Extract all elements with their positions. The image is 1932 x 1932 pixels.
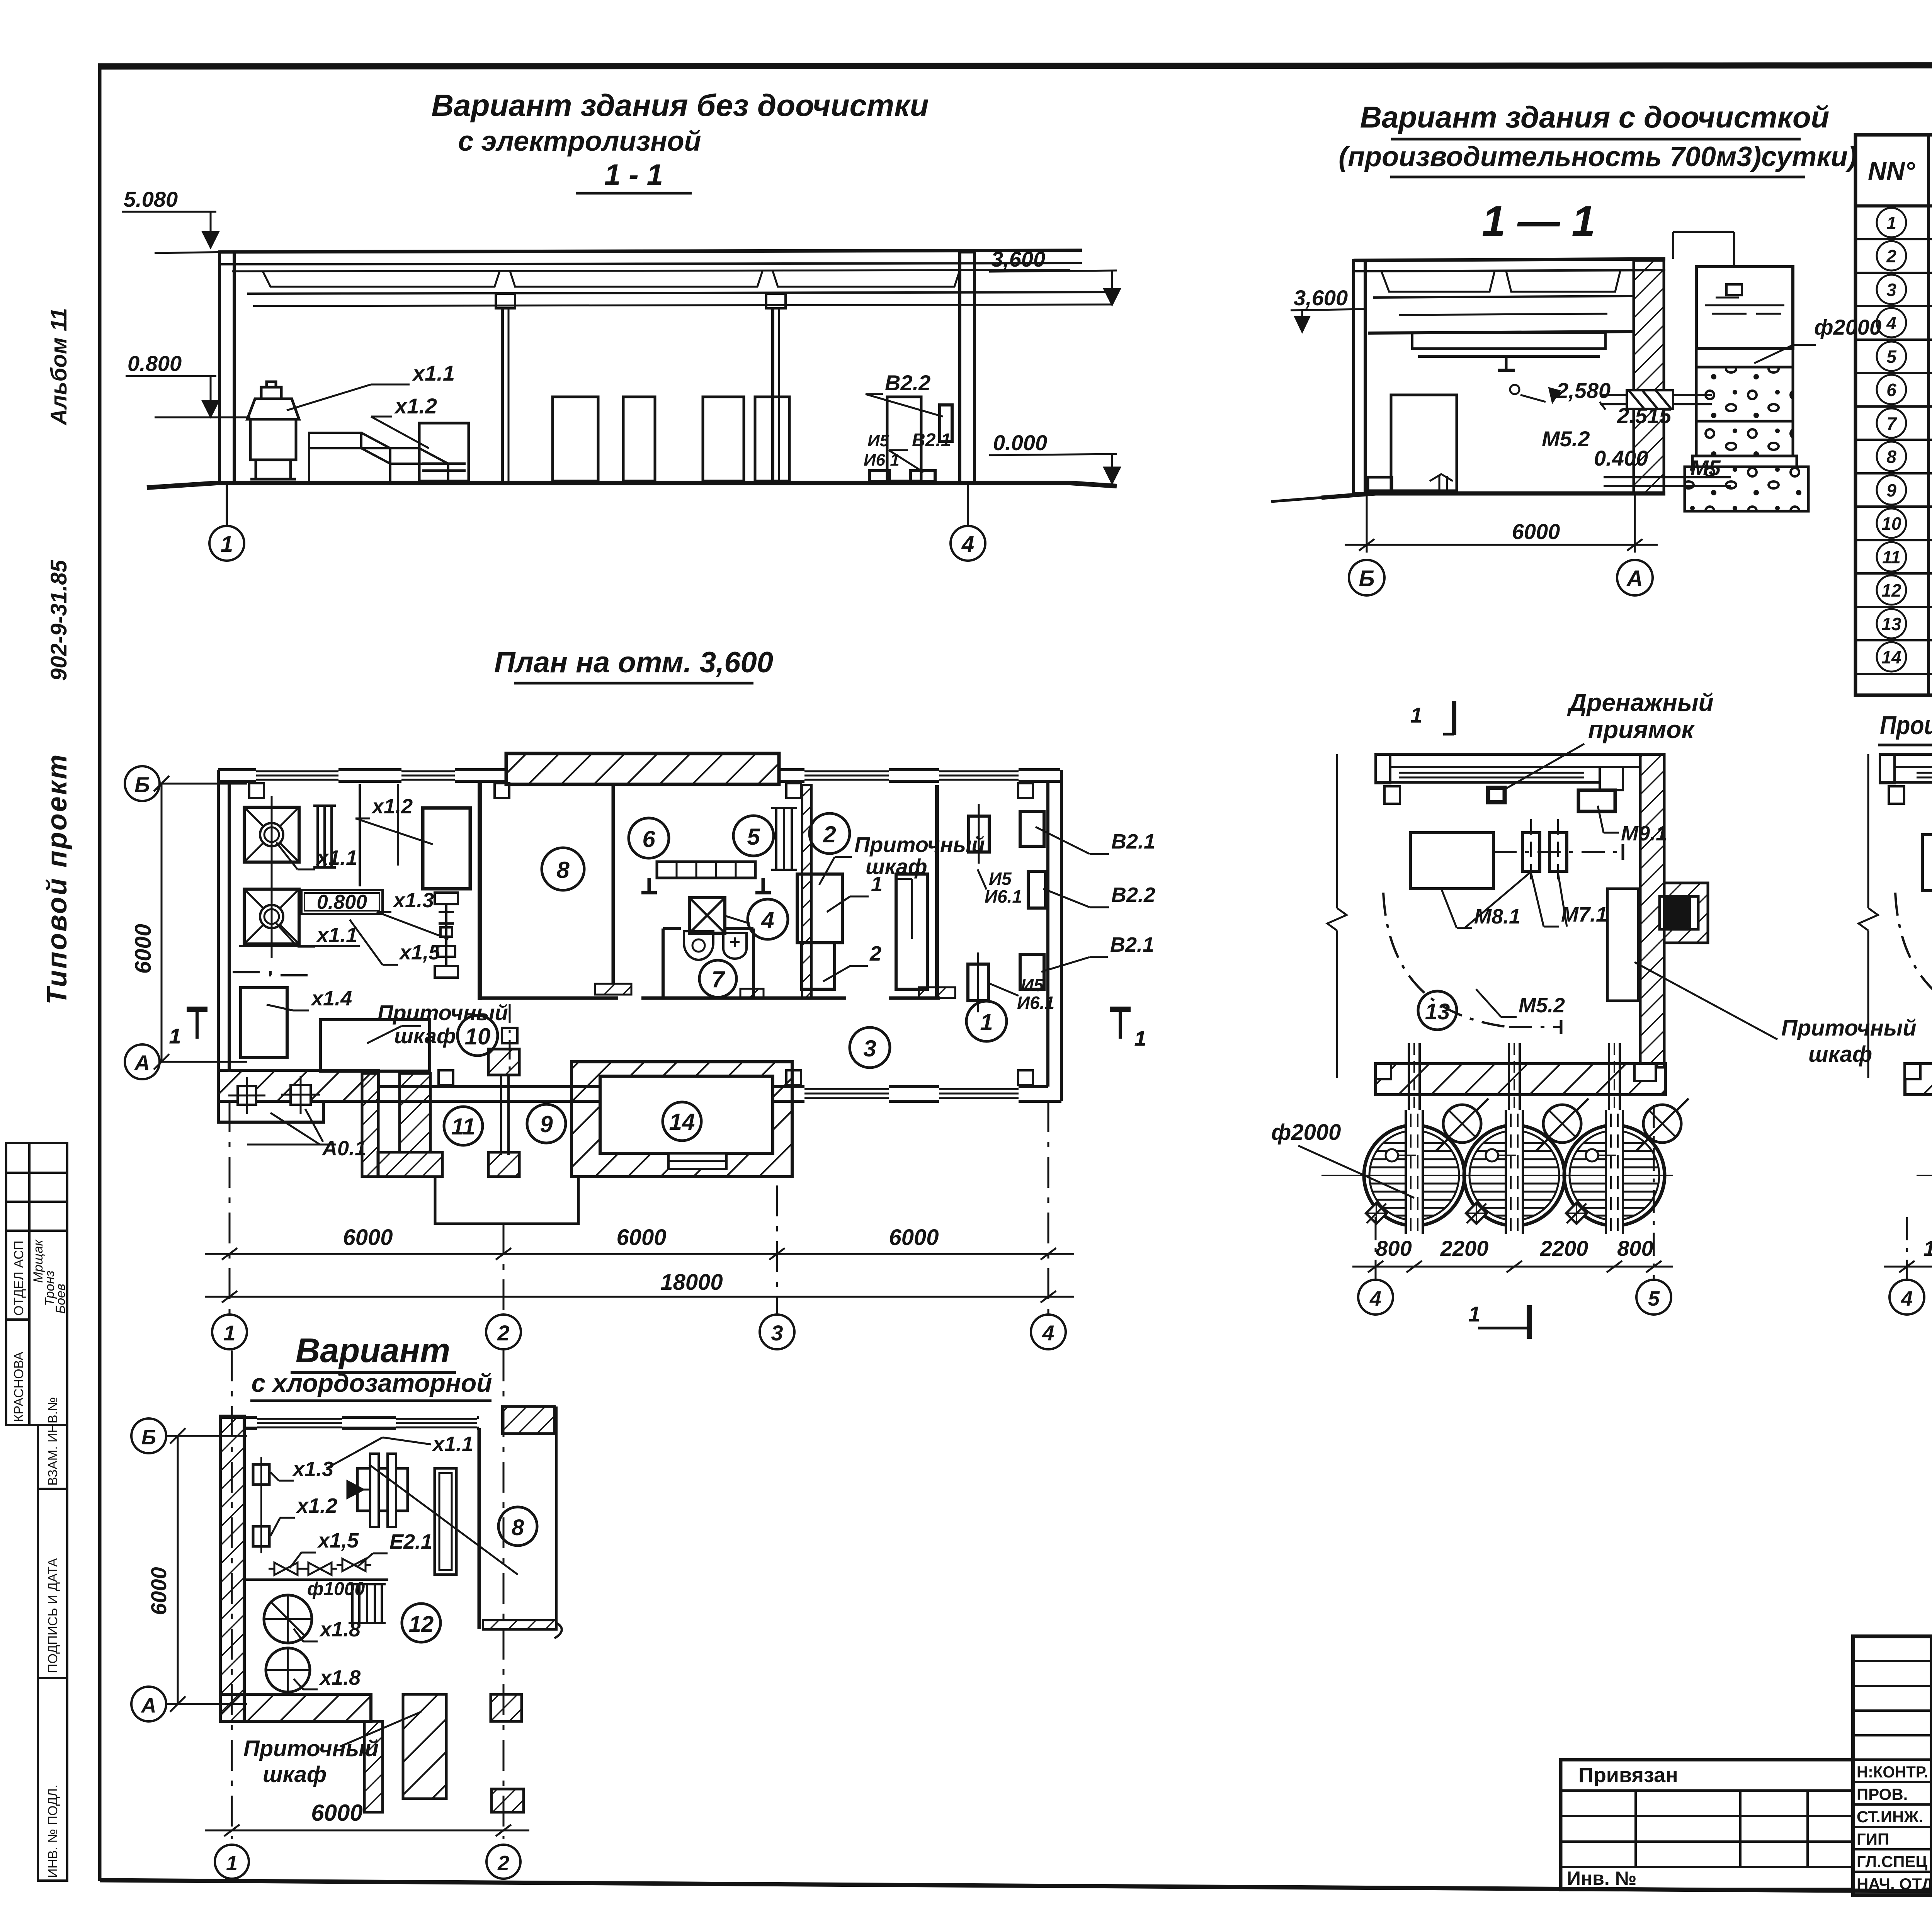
svg-text:0.400: 0.400 — [1594, 446, 1648, 470]
plan400 bottom hatched band — [1905, 1064, 1932, 1095]
room 1 devices — [968, 804, 1046, 1012]
svg-text:2200: 2200 — [1440, 1236, 1489, 1260]
svg-text:M5.2: M5.2 — [1542, 427, 1590, 451]
plan400 aerotanks center line — [1917, 1175, 1932, 1176]
svg-text:3,600: 3,600 — [1294, 286, 1348, 310]
plan700 labels M — [1474, 822, 1667, 1017]
svg-text:x1.4: x1.4 — [310, 987, 352, 1010]
plan700 13 circle — [1418, 991, 1457, 1030]
svg-text:Приточный: Приточный — [243, 1736, 379, 1761]
axis lines and dimensions — [205, 1101, 1074, 1314]
signature rows — [1853, 1781, 1932, 1783]
svg-text:6: 6 — [1886, 380, 1896, 400]
svg-text:А: А — [141, 1694, 156, 1717]
variant axes verticals — [232, 1350, 503, 1839]
section 2 equipment — [1368, 395, 1457, 493]
svg-text:x1.8: x1.8 — [319, 1618, 361, 1641]
plan700 bottom hatched band — [1376, 1064, 1665, 1095]
svg-text:ПРОВ.: ПРОВ. — [1857, 1785, 1908, 1803]
svg-text:x1.1: x1.1 — [316, 846, 357, 869]
svg-text:1: 1 — [223, 1321, 235, 1345]
svg-text:x1,5: x1,5 — [317, 1529, 359, 1552]
hatched top wall band — [506, 753, 779, 784]
variant labels — [292, 1432, 473, 1689]
svg-text:И6.1: И6.1 — [1017, 993, 1054, 1013]
plan700 dims — [1352, 1105, 1673, 1280]
svg-text:6000: 6000 — [616, 1225, 666, 1250]
svg-text:с хлордозаторной: с хлордозаторной — [251, 1369, 492, 1397]
svg-text:2.515: 2.515 — [1617, 403, 1672, 428]
svg-text:12: 12 — [1881, 580, 1901, 600]
vertical axis dim — [154, 776, 247, 1070]
svg-text:B2.1: B2.1 — [1110, 933, 1154, 956]
svg-text:1: 1 — [1468, 1302, 1480, 1326]
svg-text:Н:КОНТР.: Н:КОНТР. — [1857, 1763, 1928, 1781]
section 1 grid circles — [209, 483, 985, 561]
svg-text:12: 12 — [409, 1612, 434, 1637]
svg-text:x1.2: x1.2 — [394, 394, 437, 418]
svg-text:4: 4 — [961, 532, 974, 557]
svg-text:КРАСНОВА: КРАСНОВА — [12, 1352, 26, 1422]
svg-text:7: 7 — [1886, 413, 1897, 434]
svg-text:М7.1: М7.1 — [1561, 903, 1607, 926]
section 2 filter layers — [1685, 349, 1808, 511]
svg-text:приямок: приямок — [1588, 716, 1695, 743]
plan700 supply cabinet + right wall — [1607, 889, 1638, 1001]
drain pit label — [1567, 689, 1714, 743]
svg-text:Б: Б — [134, 772, 150, 797]
plan700 aerotanks center line — [1321, 1175, 1673, 1176]
svg-text:10: 10 — [465, 1024, 491, 1049]
plan400 dims — [1884, 1105, 1932, 1279]
lower extension: hatched band below left rooms — [218, 1070, 379, 1101]
svg-text:2,580: 2,580 — [1556, 378, 1611, 403]
svg-text:x1,5: x1,5 — [398, 941, 440, 964]
svg-text:2: 2 — [1886, 246, 1896, 266]
wall boxes — [253, 1464, 269, 1485]
svg-text:5.080: 5.080 — [124, 187, 178, 211]
svg-text:И5: И5 — [1021, 975, 1044, 995]
svg-text:8: 8 — [512, 1515, 524, 1540]
svg-text:6000: 6000 — [311, 1800, 362, 1826]
svg-text:План на отм. 3,600: План на отм. 3,600 — [494, 646, 773, 679]
svg-text:2: 2 — [497, 1321, 509, 1345]
svg-text:x1.1: x1.1 — [432, 1432, 473, 1456]
svg-text:0.800: 0.800 — [128, 351, 182, 376]
svg-text:x1.8: x1.8 — [319, 1666, 361, 1689]
variant bottom dim — [205, 1825, 529, 1836]
section 2 hatched right wall — [1634, 260, 1664, 493]
svg-text:М8.1: М8.1 — [1474, 905, 1520, 928]
svg-text:1: 1 — [221, 532, 233, 557]
section 2 dims — [1345, 493, 1658, 553]
svg-text:x1.3: x1.3 — [392, 889, 434, 912]
svg-text:6000: 6000 — [131, 924, 156, 974]
svg-text:3: 3 — [771, 1321, 783, 1345]
svg-text:0.000: 0.000 — [993, 430, 1047, 455]
svg-text:1900: 1900 — [1923, 1236, 1932, 1260]
svg-text:ф2000: ф2000 — [1814, 315, 1881, 339]
plan700 top wall — [1376, 754, 1664, 804]
svg-text:1 - 1: 1 - 1 — [604, 158, 663, 191]
valves row — [269, 1563, 303, 1575]
tank x1.2 plan — [423, 808, 470, 889]
svg-text:1: 1 — [980, 1009, 993, 1035]
table header text — [1868, 155, 1932, 188]
svg-text:ОТДЕЛ АСП: ОТДЕЛ АСП — [12, 1241, 26, 1316]
section 1 wall device B2.2 — [869, 405, 952, 481]
svg-text:7: 7 — [711, 966, 725, 992]
svg-text:шкаф: шкаф — [866, 854, 927, 879]
svg-text:2200: 2200 — [1540, 1236, 1588, 1260]
outer walls — [218, 770, 1061, 1101]
svg-text:1: 1 — [226, 1852, 238, 1875]
svg-text:шкаф: шкаф — [263, 1762, 327, 1787]
rail line room 10 — [502, 1004, 517, 1070]
svg-text:3: 3 — [863, 1036, 876, 1061]
electrolyzer unit — [348, 1454, 408, 1527]
svg-text:1: 1 — [169, 1025, 181, 1048]
svg-text:ПОДПИСЬ И ДАТА: ПОДПИСЬ И ДАТА — [46, 1558, 60, 1673]
svg-text:x1.3: x1.3 — [292, 1458, 333, 1481]
svg-text:4: 4 — [1369, 1287, 1381, 1310]
svg-text:800: 800 — [1617, 1236, 1653, 1260]
shower room equipment — [244, 807, 299, 862]
svg-text:9: 9 — [1886, 480, 1896, 500]
plan400 left boundary — [1859, 754, 1878, 1078]
svg-text:(производительность 700м3)сутк: (производительность 700м3)сутки) — [1338, 141, 1857, 172]
room 2 furniture — [797, 874, 927, 989]
section 1 columns — [219, 252, 975, 483]
section 1 mixer tank x1.1 — [247, 382, 299, 479]
svg-text:Приточный: Приточный — [1781, 1015, 1917, 1041]
variant axis circles — [131, 1418, 166, 1453]
svg-text:B2.1: B2.1 — [1111, 830, 1155, 853]
windows top wall — [256, 767, 1019, 1104]
plan700 M9.1 box — [1578, 790, 1615, 811]
svg-text:Привязан: Привязан — [1578, 1764, 1678, 1787]
drum circles x1.8 — [264, 1595, 312, 1692]
svg-text:x1.2: x1.2 — [296, 1494, 337, 1517]
svg-text:1: 1 — [1410, 703, 1422, 727]
svg-text:x1.2: x1.2 — [371, 795, 413, 818]
svg-text:6000: 6000 — [1512, 519, 1560, 544]
signature table texts — [1857, 1763, 1932, 1893]
section 2 crane circle — [1510, 385, 1519, 394]
svg-text:9: 9 — [540, 1111, 553, 1137]
box x1.4 — [241, 988, 287, 1058]
tambour 11 walls — [362, 1073, 442, 1177]
plan700 shafts — [1409, 1043, 1620, 1136]
section 1 equipment boxes — [553, 397, 921, 481]
svg-text:4: 4 — [761, 907, 774, 933]
section 1 roof slab — [219, 250, 1117, 306]
svg-text:6000: 6000 — [146, 1567, 171, 1615]
svg-text:4: 4 — [1901, 1287, 1913, 1310]
svg-text:3: 3 — [1886, 280, 1896, 300]
svg-text:2: 2 — [869, 942, 881, 965]
svg-text:Вариант: Вариант — [296, 1331, 450, 1369]
svg-text:6000: 6000 — [343, 1225, 393, 1250]
svg-text:с электролизной: с электролизной — [458, 126, 701, 157]
svg-text:6000: 6000 — [889, 1225, 939, 1250]
svg-text:5: 5 — [747, 824, 760, 850]
svg-text:2: 2 — [497, 1852, 509, 1875]
locker bench room 5/4 — [641, 862, 771, 893]
svg-text:10: 10 — [1881, 514, 1901, 534]
label leaders — [267, 818, 1109, 1043]
svg-text:Вариант здания без доочистк: Вариант здания без доочистки — [431, 88, 929, 122]
svg-text:А: А — [1626, 566, 1643, 591]
margin signature table — [6, 1143, 67, 1881]
svg-text:3,600: 3,600 — [991, 247, 1045, 271]
svg-text:11: 11 — [1882, 547, 1901, 567]
section 1 labels and dimension marks — [124, 187, 1047, 469]
plan700 aerotanks — [1361, 1099, 1488, 1235]
svg-text:B2.2: B2.2 — [1111, 883, 1155, 906]
svg-text:902-9-31.85: 902-9-31.85 — [46, 560, 71, 681]
plan400 top wall — [1880, 754, 1932, 804]
section 2 labels — [1294, 286, 1881, 544]
variant bottom walls — [220, 1694, 371, 1721]
plan700 equipment — [1383, 819, 1623, 1034]
svg-text:NN°: NN° — [1868, 156, 1915, 185]
section 1 steps bench — [309, 433, 448, 481]
svg-text:И6.1: И6.1 — [985, 886, 1022, 906]
svg-text:8: 8 — [556, 857, 570, 883]
room 4 shower cabin — [689, 898, 725, 933]
section 1 tank x1.2 — [419, 423, 469, 481]
svg-text:11: 11 — [451, 1114, 475, 1139]
dosing device x1.3 — [435, 893, 458, 978]
section 2 building outline — [1354, 259, 1665, 493]
svg-text:ГИП: ГИП — [1857, 1830, 1889, 1848]
svg-text:Б: Б — [141, 1426, 156, 1449]
lower entrance outline — [435, 1177, 578, 1224]
svg-text:5: 5 — [1886, 347, 1897, 367]
svg-text:4: 4 — [1886, 313, 1896, 333]
svg-text:Б: Б — [1359, 566, 1374, 591]
svg-text:800: 800 — [1376, 1236, 1412, 1260]
table row number circles — [1877, 208, 1906, 672]
svg-text:И5: И5 — [867, 431, 889, 450]
tambour 9 column — [488, 1049, 519, 1177]
svg-text:B2.2: B2.2 — [885, 371, 930, 395]
room 7 toilet walls — [663, 929, 753, 998]
svg-text:8: 8 — [1886, 447, 1896, 467]
ladder grate — [349, 1584, 386, 1623]
heat room 14 block — [571, 1062, 792, 1177]
svg-text:x1.1: x1.1 — [316, 923, 357, 947]
svg-text:ИНВ. № ПОДЛ.: ИНВ. № ПОДЛ. — [46, 1785, 60, 1878]
svg-text:18000: 18000 — [660, 1270, 723, 1295]
left margin rotated captions — [42, 308, 73, 1005]
svg-text:НАЧ. ОТД: НАЧ. ОТД — [1857, 1875, 1932, 1893]
svg-text:M5: M5 — [1690, 456, 1721, 480]
leader for room 4 — [725, 916, 750, 923]
interior partitions — [480, 781, 955, 1000]
svg-text:14: 14 — [1881, 647, 1901, 667]
svg-text:Вариант здания с доочисткой: Вариант здания с доочисткой — [1360, 100, 1830, 134]
inner boundary shower area — [233, 784, 398, 975]
section 1 ground line — [147, 483, 1117, 488]
svg-text:4: 4 — [1042, 1321, 1054, 1345]
vent ladders — [313, 806, 797, 870]
wall pier marks — [249, 783, 1033, 1085]
svg-text:1: 1 — [1134, 1027, 1146, 1050]
svg-text:ГЛ.СПЕЦ: ГЛ.СПЕЦ — [1857, 1852, 1927, 1871]
plan400 equipment — [1895, 819, 1932, 1034]
left block grid — [1561, 1789, 1853, 1792]
left small porch room with anchors A0.1 — [218, 1076, 336, 1145]
radiator slot — [435, 1468, 456, 1575]
variant walls — [220, 1416, 244, 1721]
svg-text:x1.1: x1.1 — [412, 361, 455, 385]
svg-text:И5: И5 — [989, 869, 1012, 889]
svg-text:М5.2: М5.2 — [1519, 994, 1565, 1017]
0.800 boxed level — [301, 890, 383, 914]
svg-text:1: 1 — [1886, 213, 1896, 233]
svg-text:Инв. №: Инв. № — [1567, 1867, 1636, 1889]
svg-text:Боев: Боев — [53, 1284, 68, 1314]
svg-text:5: 5 — [1648, 1287, 1660, 1310]
section 2 ground — [1321, 493, 1665, 498]
section 1 title — [431, 88, 929, 193]
svg-text:ф1000: ф1000 — [307, 1579, 365, 1599]
section 2 title — [1338, 100, 1857, 245]
svg-text:1 — 1: 1 — 1 — [1482, 197, 1595, 245]
section 2 pipes through wall — [1600, 390, 1731, 486]
svg-text:14: 14 — [669, 1109, 695, 1135]
variant room circles — [402, 1604, 440, 1642]
section 2 contact tank right — [1673, 232, 1793, 349]
plan700 left boundary with break — [1327, 754, 1347, 1078]
plan700 drain pit box — [1488, 788, 1505, 802]
svg-text:Производительность 400м³/сутк: Производительность 400м³/сутки — [1880, 711, 1932, 740]
svg-text:А: А — [134, 1051, 150, 1075]
svg-text:Е2.1: Е2.1 — [389, 1530, 432, 1553]
svg-text:Приточный: Приточный — [378, 1000, 508, 1025]
svg-text:0.800: 0.800 — [317, 891, 367, 913]
svg-text:Приточный: Приточный — [854, 832, 985, 857]
svg-text:13: 13 — [1881, 614, 1901, 634]
svg-text:шкаф: шкаф — [394, 1024, 456, 1048]
plan equipment labels — [310, 795, 1155, 1160]
svg-text:2: 2 — [823, 821, 836, 847]
svg-text:шкаф: шкаф — [1808, 1042, 1872, 1067]
supply cabinet — [320, 1020, 430, 1071]
svg-text:СТ.ИНЖ.: СТ.ИНЖ. — [1857, 1808, 1923, 1826]
svg-text:ф2000: ф2000 — [1271, 1120, 1341, 1145]
svg-text:Дренажный: Дренажный — [1567, 689, 1714, 716]
svg-text:Альбом 11: Альбом 11 — [46, 308, 71, 426]
section cut marks — [169, 1009, 1146, 1050]
room number circles — [444, 813, 1007, 1145]
svg-text:А0.1: А0.1 — [321, 1137, 366, 1160]
svg-text:Типовой проект: Типовой проект — [42, 753, 73, 1005]
svg-text:6: 6 — [642, 826, 655, 852]
svg-text:13: 13 — [1425, 999, 1450, 1024]
svg-text:ВЗАМ. ИНВ.№: ВЗАМ. ИНВ.№ — [46, 1397, 60, 1486]
table grid — [1855, 135, 1932, 695]
